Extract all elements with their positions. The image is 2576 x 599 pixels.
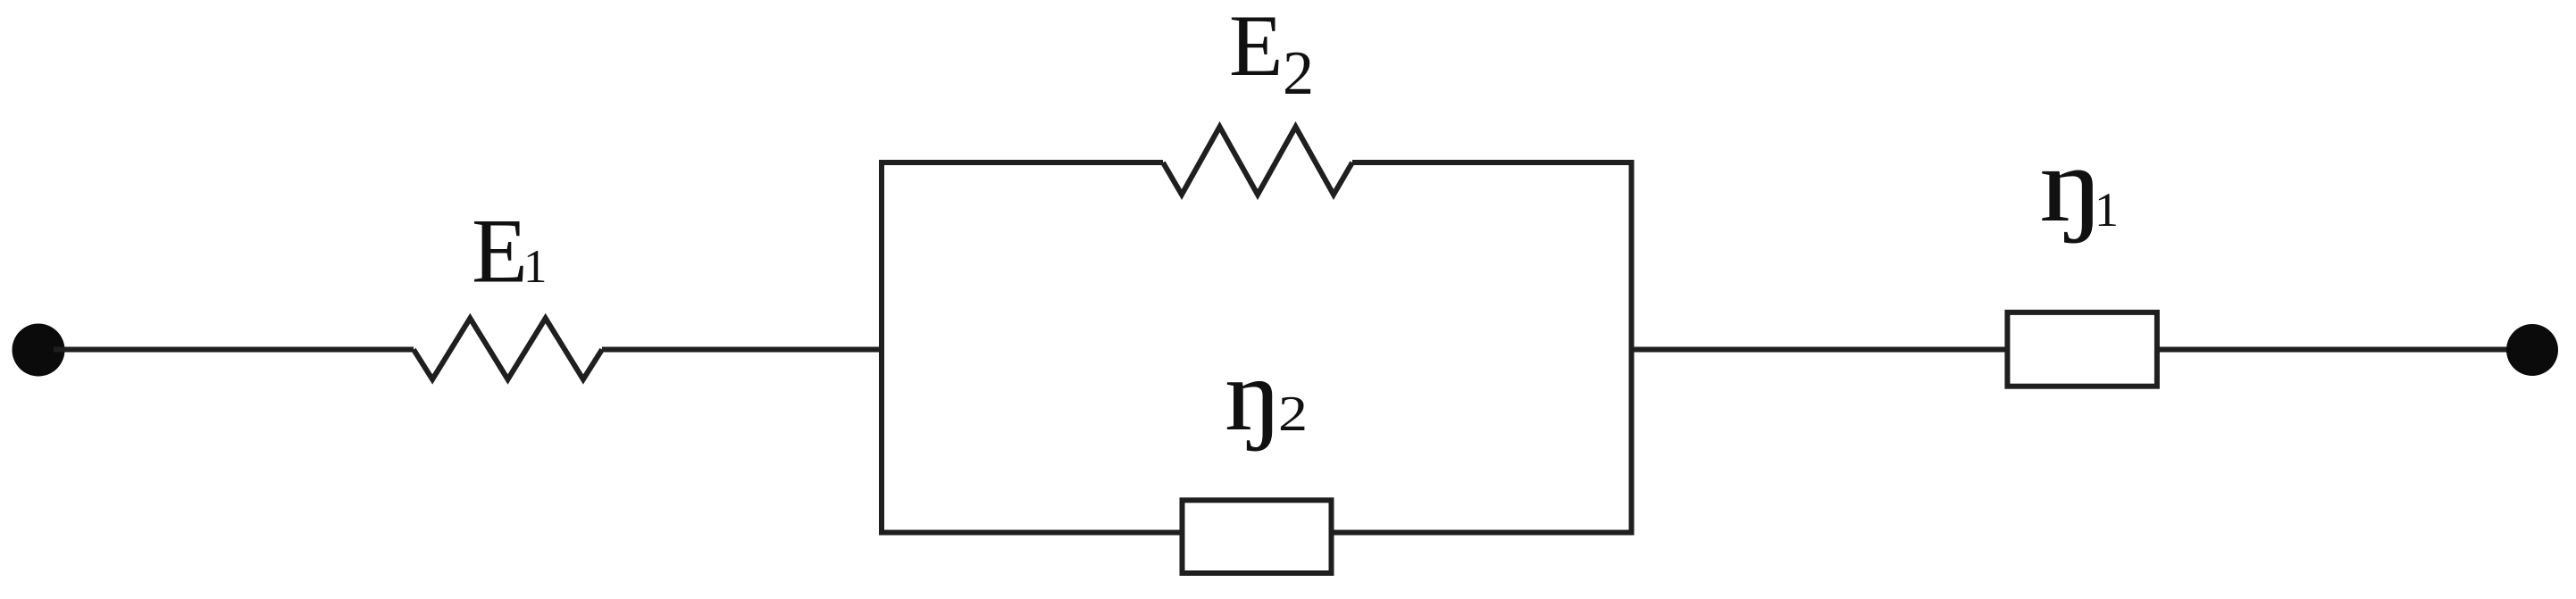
dashpot eta2 (rectangle) (1183, 500, 1332, 573)
spring (resistor zigzag) E2 (1163, 127, 1352, 195)
wire: parallel box to dashpot eta1 (1632, 347, 2008, 353)
wire: top rail left segment (879, 160, 1163, 165)
node: right terminal (2506, 324, 2558, 376)
wire: bottom rail right segment (1332, 530, 1632, 536)
svg-text:1: 1 (523, 241, 548, 293)
wire: bottom rail left segment (879, 530, 1183, 536)
svg-text:1: 1 (2095, 183, 2119, 237)
svg-text:2: 2 (1278, 387, 1308, 442)
wire: left terminal to spring E1 (54, 347, 414, 353)
node: left terminal (13, 324, 65, 377)
dashpot eta1 (rectangle) (2007, 312, 2157, 387)
wire: top rail right segment (1352, 160, 1635, 165)
wire: parallel box right vertical (1629, 160, 1635, 536)
svg-text:E: E (472, 201, 528, 303)
svg-text:ŋ: ŋ (1225, 338, 1283, 453)
wire: dashpot eta1 to right terminal (2157, 347, 2519, 353)
svg-text:E: E (1229, 0, 1283, 95)
wire: spring E1 to parallel box (602, 347, 884, 353)
wire: parallel box left vertical (879, 160, 884, 536)
spring (resistor zigzag) E1 (414, 319, 602, 380)
svg-text:2: 2 (1283, 39, 1314, 108)
